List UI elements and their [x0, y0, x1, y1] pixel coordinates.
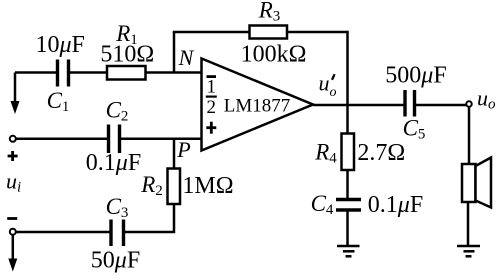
svg-text:2: 2: [207, 97, 217, 118]
wire feedback riser at node N: [173, 32, 176, 73]
resistor R3: [250, 26, 288, 39]
svg-text:C5: C5: [403, 116, 426, 143]
capacitor C2: [109, 125, 120, 154]
wire minus terminal to C3: [16, 231, 111, 234]
wire riser junction down to R4: [346, 105, 349, 134]
svg-text:2.7Ω: 2.7Ω: [357, 140, 405, 166]
input terminal minus: [10, 229, 16, 235]
wire C5 to uo terminal: [415, 104, 467, 107]
wire R4 to C4: [346, 170, 349, 200]
svg-text:1: 1: [207, 77, 217, 98]
wire R1 to opamp inverting input: [146, 71, 202, 74]
svg-text:R4: R4: [314, 140, 337, 167]
ground at speaker: [457, 246, 480, 256]
svg-text:R2: R2: [140, 172, 163, 199]
capacitor C1: [58, 60, 69, 87]
ground arrow bottom: [8, 235, 17, 272]
svg-text:510Ω: 510Ω: [100, 42, 154, 68]
svg-text:C3: C3: [106, 194, 129, 221]
wire C1 to R1: [69, 71, 108, 74]
svg-text:0.1μF: 0.1μF: [86, 150, 141, 176]
wire feedback right riser down to output: [346, 31, 349, 105]
label minus: [7, 217, 17, 220]
wire plus terminal to C2: [16, 138, 108, 141]
svg-text:50μF: 50μF: [91, 248, 140, 274]
wire speaker to ground: [467, 202, 470, 246]
op-amp plus sign: [206, 122, 216, 134]
wire opamp output to C5: [313, 104, 405, 107]
wire feedback top right segment: [287, 31, 348, 34]
capacitor C3: [111, 220, 124, 247]
wire R2 down to bottom rail: [124, 204, 175, 232]
op-amp U1: [202, 59, 314, 151]
wire C2 to opamp noninverting input: [120, 138, 202, 141]
svg-text:N: N: [178, 45, 195, 70]
capacitor C5: [405, 90, 415, 117]
resistor R1: [107, 66, 146, 80]
svg-text:C4: C4: [311, 191, 334, 218]
svg-text:C2: C2: [106, 98, 129, 125]
svg-text:1MΩ: 1MΩ: [182, 173, 233, 199]
wire uo down to speaker: [468, 107, 471, 164]
label plus: [8, 151, 18, 161]
wire top rail left segment: [15, 71, 56, 74]
op-amp minus sign: [207, 75, 217, 78]
svg-text:uo: uo: [477, 86, 496, 113]
ground at C4: [337, 246, 360, 256]
wire C4 to ground: [346, 210, 349, 246]
svg-text:500μF: 500μF: [385, 63, 446, 89]
svg-text:0.1μF: 0.1μF: [368, 192, 423, 218]
svg-text:100kΩ: 100kΩ: [241, 42, 307, 68]
svg-text:P: P: [176, 137, 190, 162]
op-amp half fraction: [207, 77, 217, 119]
capacitor C4: [336, 200, 361, 211]
wire node P down to R2: [173, 139, 176, 169]
input terminal plus: [10, 136, 16, 142]
svg-text:R3: R3: [258, 0, 281, 25]
svg-text:10μF: 10μF: [35, 32, 84, 58]
svg-text:C1: C1: [47, 88, 70, 115]
label uo-prime: [319, 71, 337, 101]
wire feedback top left segment: [173, 31, 250, 34]
svg-text:ui: ui: [6, 169, 21, 196]
resistor R2: [168, 169, 181, 205]
output terminal uo: [466, 101, 472, 107]
svg-text:LM1877: LM1877: [224, 96, 291, 117]
resistor R4: [342, 134, 355, 171]
speaker LS: [462, 158, 491, 208]
ground arrow left: [11, 73, 20, 115]
